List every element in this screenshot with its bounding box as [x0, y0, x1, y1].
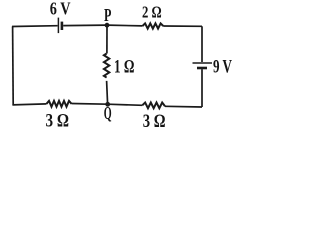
svg-text:6 V: 6 V: [50, 0, 71, 18]
svg-text:2 Ω: 2 Ω: [142, 3, 162, 22]
node P junction dot: [105, 23, 110, 28]
wire left vertical: [12, 26, 15, 105]
resistor R2 3ohm zigzag left: [47, 101, 72, 107]
svg-text:3 Ω: 3 Ω: [143, 111, 166, 132]
battery B2 9V long plate (+): [193, 62, 213, 64]
wire right vertical lower: [201, 69, 203, 107]
svg-text:Q: Q: [104, 103, 112, 123]
wire resistor R4 down to node Q: [107, 81, 108, 104]
wire right vertical upper: [201, 26, 203, 62]
svg-text:9 V: 9 V: [213, 57, 232, 78]
wire node P down to resistor R4: [106, 25, 108, 53]
svg-text:1 Ω: 1 Ω: [114, 56, 135, 77]
wire battery to node P: [63, 24, 107, 27]
wire top-left segment: [12, 25, 58, 28]
resistor R4 1ohm vertical zigzag: [104, 54, 109, 78]
resistor R3 3ohm zigzag right: [142, 103, 165, 109]
battery B1 6V short thick plate (-): [61, 22, 64, 30]
wire resistor R1 to top-right corner: [163, 25, 202, 27]
wire node Q to resistor R3: [108, 104, 143, 105]
svg-text:3 Ω: 3 Ω: [46, 111, 70, 132]
node Q junction dot: [105, 102, 110, 107]
resistor R1 2ohm zigzag: [143, 23, 164, 28]
wire bottom-left corner to resistor R2: [12, 104, 46, 105]
battery B1 6V long plate (+): [57, 18, 59, 33]
wire resistor R2 to node Q: [72, 103, 108, 106]
wire bottom-right corner to resistor R3: [165, 105, 202, 108]
battery B2 9V short thick plate (-): [197, 67, 207, 70]
wire node P to resistor R1: [107, 24, 143, 27]
svg-text:P: P: [104, 5, 112, 25]
